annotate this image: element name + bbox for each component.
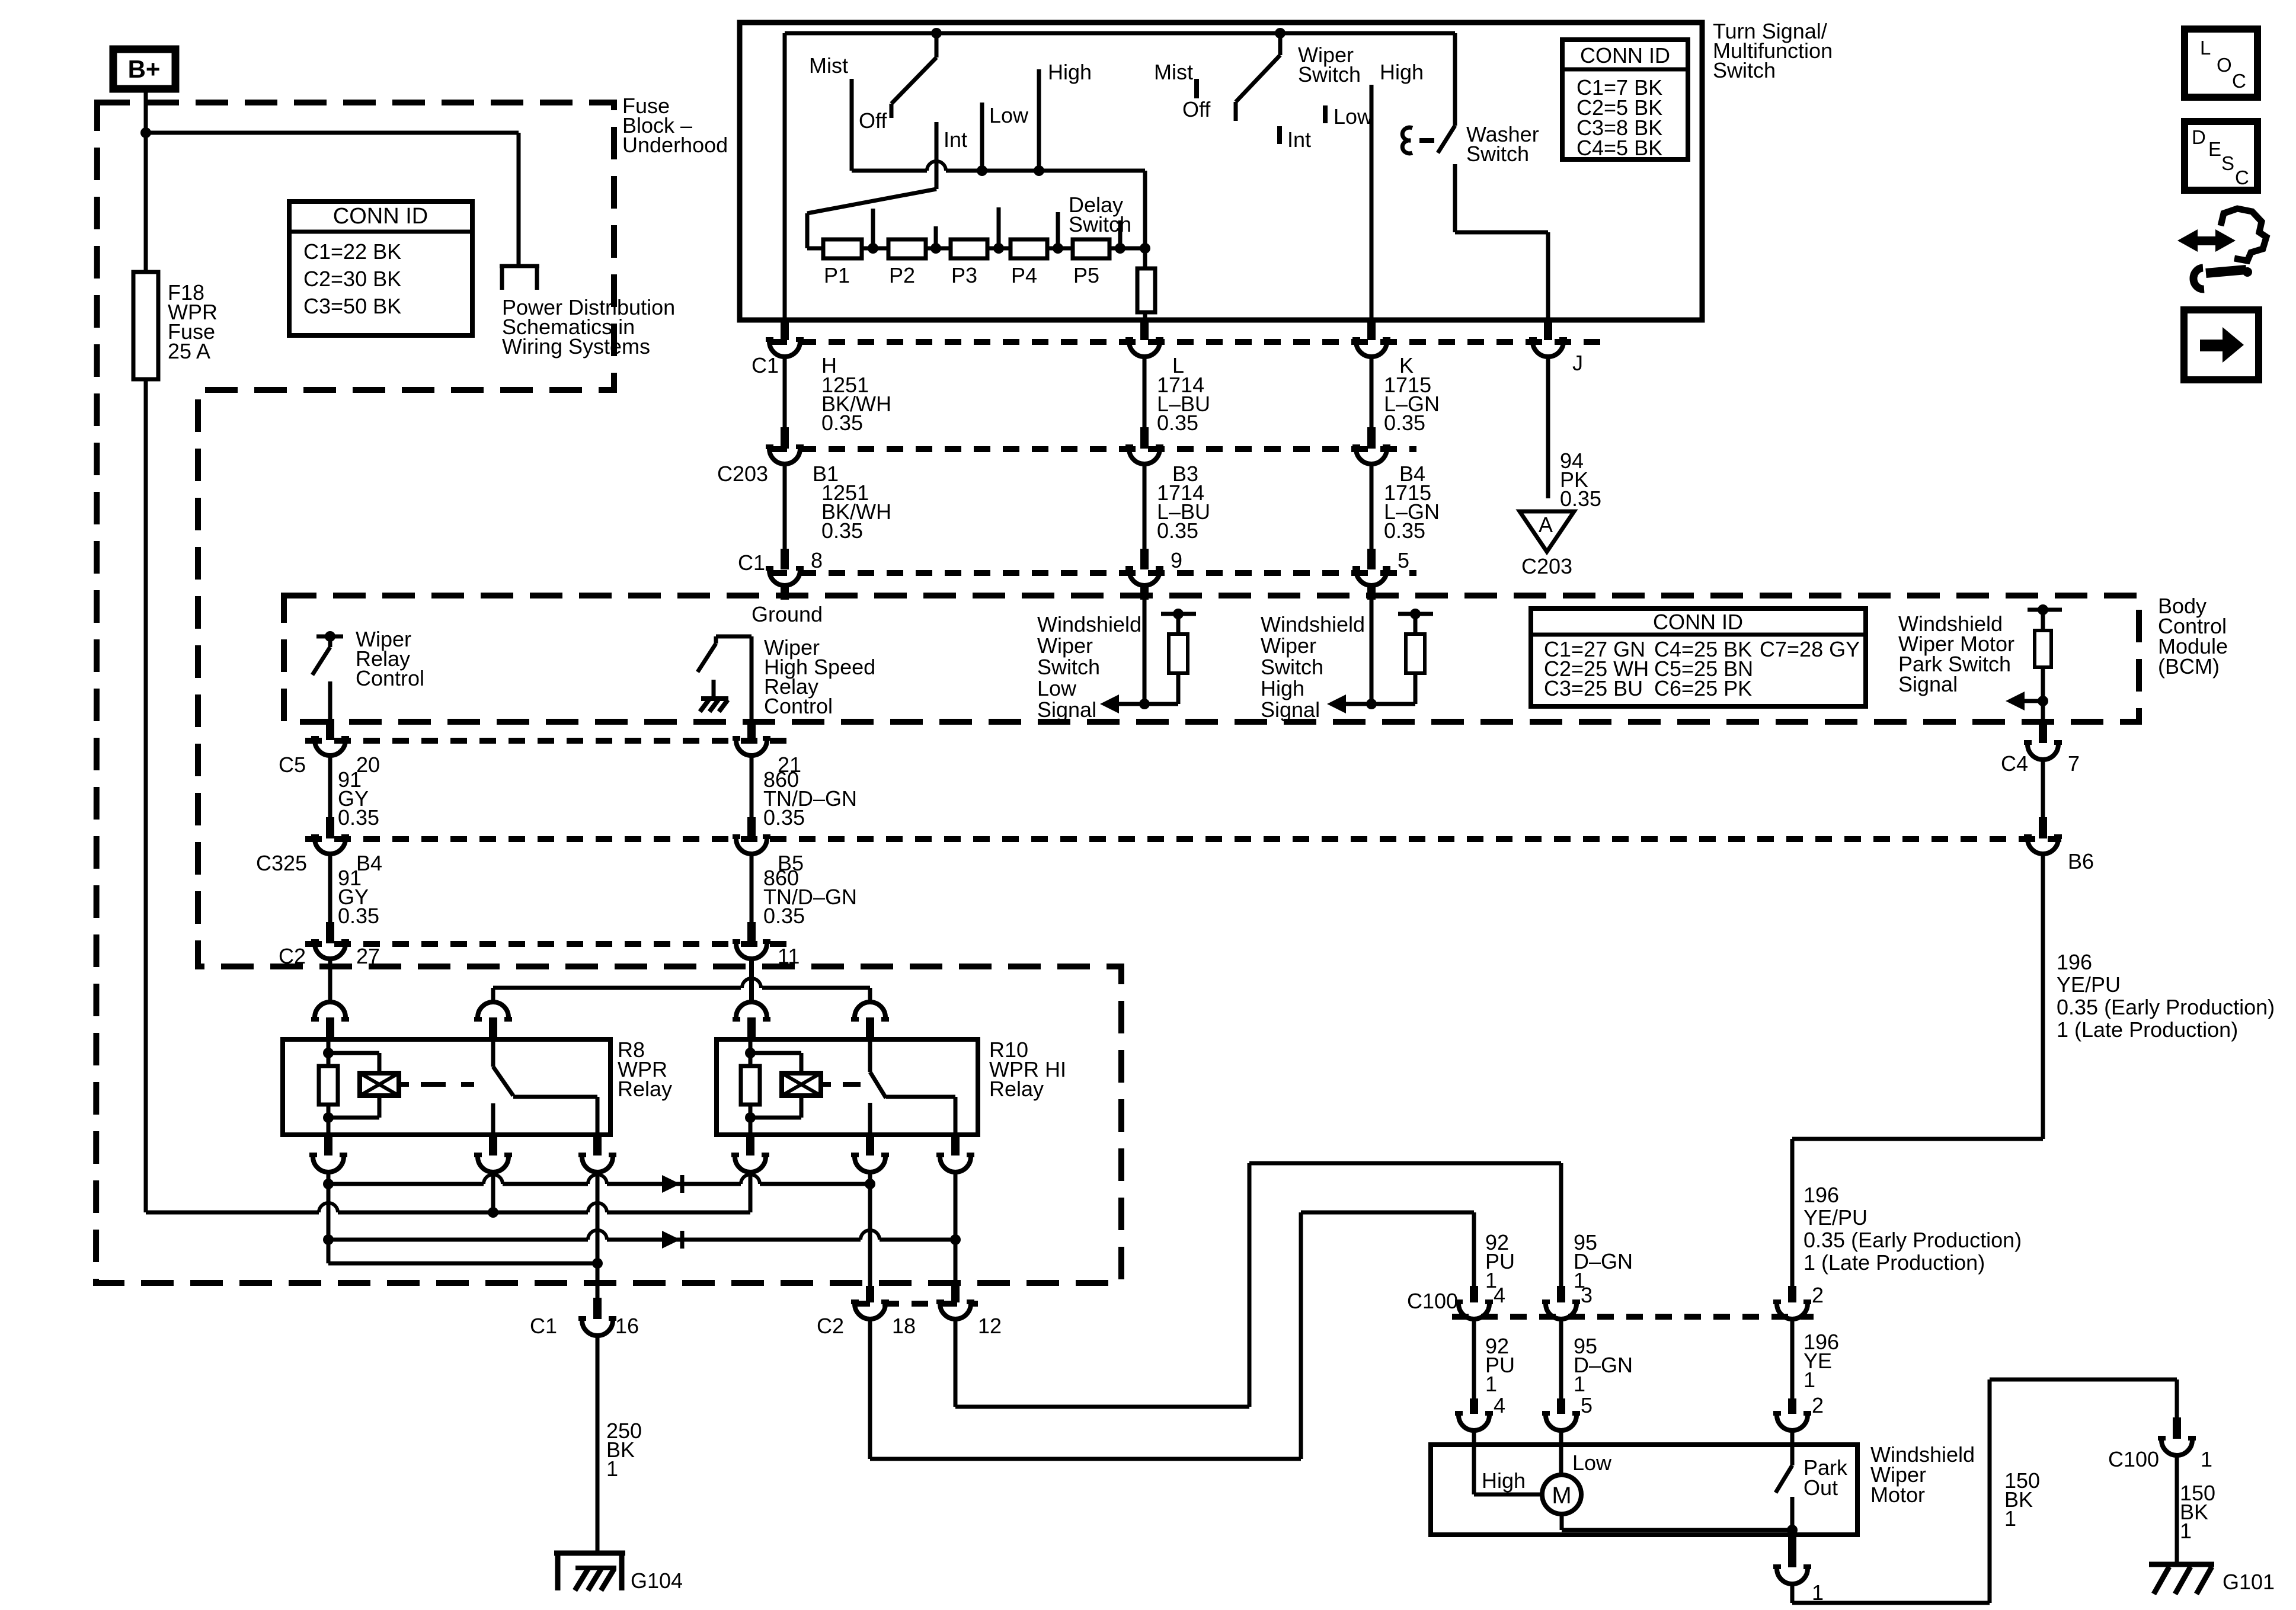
windshield wiper motor box bbox=[1431, 1445, 1857, 1535]
label 12 bbox=[978, 1314, 1002, 1338]
pin stub K into BCM bbox=[1367, 585, 1376, 600]
label C2 bbox=[279, 944, 306, 968]
svg-text:1 (Late Production): 1 (Late Production) bbox=[2057, 1017, 2238, 1042]
R8 linkage bbox=[399, 1082, 474, 1087]
wire high signal input bbox=[1366, 598, 1377, 709]
svg-text:Mist: Mist bbox=[1154, 60, 1193, 84]
connector B5 bbox=[733, 817, 770, 854]
label 18 bbox=[892, 1314, 916, 1338]
wire to power distribution bbox=[146, 133, 519, 266]
label C100 bbox=[1407, 1289, 1458, 1313]
dashed row C5 bbox=[305, 738, 788, 744]
label washer switch bbox=[1466, 122, 1539, 166]
svg-text:Off: Off bbox=[859, 108, 887, 133]
wire row C diode out bbox=[674, 1230, 955, 1240]
connector 21 bbox=[733, 719, 770, 756]
connector H row1 bbox=[766, 320, 804, 357]
label G104 bbox=[631, 1569, 683, 1593]
svg-text:Relay: Relay bbox=[989, 1077, 1044, 1101]
svg-text:Low: Low bbox=[989, 103, 1029, 127]
svg-text:C4: C4 bbox=[2001, 751, 2028, 776]
connector C2-11 bbox=[733, 922, 770, 959]
svg-text:Low: Low bbox=[1037, 676, 1077, 700]
label Int 1 bbox=[944, 127, 967, 152]
icon wrench arrow bbox=[2177, 209, 2266, 289]
svg-text:L: L bbox=[2200, 37, 2211, 59]
ground chassis high speed bbox=[700, 699, 728, 712]
junction dot row C R10 NO bbox=[950, 1234, 961, 1245]
wire 860 upper bbox=[750, 756, 754, 817]
connector motor 5 bbox=[1542, 1398, 1580, 1430]
label P4 bbox=[1011, 263, 1037, 287]
svg-text:M: M bbox=[1552, 1483, 1571, 1509]
wire off common bus bbox=[852, 161, 1145, 248]
R8 NO contact wire bbox=[513, 1097, 597, 1135]
wire 250 BK bbox=[596, 1336, 600, 1554]
label P2 bbox=[889, 263, 915, 287]
svg-text:C7=28 GY: C7=28 GY bbox=[1760, 637, 1860, 661]
svg-text:16: 16 bbox=[615, 1314, 639, 1338]
connector B1 row2 bbox=[766, 427, 804, 464]
svg-text:P1: P1 bbox=[824, 263, 850, 287]
label Low 2 bbox=[1334, 104, 1373, 129]
svg-text:B6: B6 bbox=[2068, 849, 2094, 873]
R10 NC contact wire bbox=[868, 1103, 872, 1135]
svg-text:0.35: 0.35 bbox=[1384, 411, 1425, 435]
connector B6 bbox=[2024, 817, 2062, 854]
svg-text:Signal: Signal bbox=[1898, 672, 1958, 696]
wire R8 common drop bbox=[491, 1172, 495, 1212]
svg-text:Switch: Switch bbox=[1713, 58, 1776, 82]
BCM dashed box bbox=[284, 596, 2139, 722]
connector C325-B4 bbox=[311, 817, 349, 854]
label 150 BK 1 right bbox=[2180, 1481, 2215, 1543]
wire 1251 lower bbox=[783, 465, 787, 549]
label pin 3 upper bbox=[1581, 1283, 1593, 1307]
wire 1715 upper bbox=[1370, 357, 1374, 428]
diode 1 bbox=[662, 1175, 682, 1193]
label windshield wiper motor bbox=[1870, 1442, 1975, 1507]
tap P2-P3 bbox=[930, 226, 941, 254]
label wire 1715 upper bbox=[1384, 373, 1440, 435]
R8 coil bbox=[360, 1073, 399, 1096]
R10 switch blade bbox=[870, 1039, 886, 1098]
diode 2 bbox=[662, 1231, 682, 1249]
svg-text:0.35: 0.35 bbox=[1157, 518, 1198, 543]
label pin 2 upper bbox=[1812, 1283, 1824, 1307]
wire pot wiper bbox=[807, 189, 936, 248]
motor M bbox=[1542, 1475, 1581, 1514]
label wire 92 PU upper bbox=[1485, 1230, 1515, 1292]
R10 linkage bbox=[821, 1082, 861, 1087]
junction dot row A R10 common bbox=[865, 1179, 875, 1189]
label wiper relay control bbox=[356, 627, 424, 690]
svg-text:Wiper: Wiper bbox=[1037, 633, 1093, 658]
R8 coil resistor bbox=[319, 1066, 338, 1105]
svg-text:196: 196 bbox=[2057, 950, 2092, 974]
arrow high signal bbox=[1327, 694, 1371, 713]
CONN ID table switch bbox=[1562, 40, 1688, 160]
label C203 row2 bbox=[717, 462, 768, 486]
label Mist 2 bbox=[1154, 60, 1193, 84]
pin stub L into BCM bbox=[1140, 585, 1149, 600]
label windshield wiper switch low signal bbox=[1037, 612, 1141, 722]
wire Int contact 1 bbox=[935, 122, 939, 189]
svg-text:8: 8 bbox=[811, 548, 823, 572]
wire 196 YE PU bbox=[1792, 854, 2043, 1286]
wire R8 coil bottom drop bbox=[327, 1172, 331, 1263]
svg-text:0.35 (Early Production): 0.35 (Early Production) bbox=[2057, 995, 2275, 1019]
wire motor ground loop bbox=[1792, 1379, 2177, 1603]
svg-text:C: C bbox=[2232, 70, 2246, 92]
label wire 196 YE bbox=[1803, 1330, 1839, 1392]
connector C100-1 bbox=[2158, 1417, 2196, 1455]
label C203 triangle bbox=[1521, 554, 1572, 578]
connector C100-3 bbox=[1542, 1286, 1580, 1319]
R8 NC contact wire bbox=[491, 1103, 495, 1135]
ground G104 bbox=[554, 1551, 625, 1590]
wire 1715 lower bbox=[1370, 465, 1374, 549]
pullup resistor low bbox=[1144, 609, 1196, 704]
svg-text:Signal: Signal bbox=[1261, 697, 1320, 722]
svg-text:4: 4 bbox=[1494, 1393, 1505, 1417]
icon DESC box bbox=[2185, 121, 2257, 190]
wire row A diode out bbox=[674, 1174, 870, 1184]
pin stub H into BCM bbox=[781, 585, 789, 600]
connector C100-2 bbox=[1773, 1286, 1811, 1319]
label 196 YE PU right bbox=[2057, 950, 2275, 1042]
label F18 fuse bbox=[168, 280, 218, 363]
label pin B1 bbox=[813, 462, 839, 486]
label 196 YE PU mid bbox=[1803, 1183, 2022, 1275]
connector C1-16 bbox=[578, 1298, 616, 1336]
svg-text:C1: C1 bbox=[752, 353, 779, 377]
junction dot low bus bbox=[977, 165, 987, 176]
svg-text:High: High bbox=[1048, 60, 1092, 84]
svg-text:High: High bbox=[1482, 1468, 1526, 1493]
label High motor bbox=[1482, 1468, 1526, 1493]
svg-text:(BCM): (BCM) bbox=[2158, 654, 2220, 678]
label windshield wiper switch high signal bbox=[1261, 612, 1365, 722]
label P1 bbox=[824, 263, 850, 287]
svg-text:5: 5 bbox=[1581, 1393, 1593, 1417]
ground G101 bbox=[2149, 1564, 2214, 1594]
junction dot row D NO bbox=[592, 1258, 603, 1269]
label wiper switch bbox=[1298, 43, 1361, 87]
wire R8 NO drop bbox=[596, 1172, 600, 1298]
socket R8 NO bottom bbox=[578, 1135, 616, 1172]
connector motor 1 bbox=[1773, 1535, 1811, 1584]
label wire 91 GY upper bbox=[338, 767, 379, 830]
arrow low signal bbox=[1100, 694, 1144, 713]
svg-text:O: O bbox=[2217, 54, 2232, 76]
label pin 8 bbox=[811, 548, 823, 572]
R8 coil branch bbox=[328, 1053, 379, 1118]
svg-text:Switch: Switch bbox=[1037, 655, 1100, 679]
wire motor high bbox=[1474, 1430, 1541, 1494]
connector L row1 bbox=[1125, 320, 1163, 357]
label P5 bbox=[1073, 263, 1099, 287]
svg-text:C4=5 BK: C4=5 BK bbox=[1576, 136, 1662, 160]
label 27 bbox=[356, 944, 380, 968]
svg-text:P3: P3 bbox=[951, 263, 977, 287]
label C5 bbox=[279, 753, 306, 777]
label B+ bbox=[128, 55, 161, 83]
svg-text:C100: C100 bbox=[1407, 1289, 1458, 1313]
junction dot arm1 bbox=[931, 28, 942, 39]
svg-text:Off: Off bbox=[1182, 97, 1211, 121]
connector pin 8 row3 bbox=[766, 549, 804, 585]
dashed row C325 bbox=[305, 836, 2061, 842]
svg-text:Signal: Signal bbox=[1037, 697, 1096, 722]
label pin H bbox=[821, 353, 837, 377]
label wire 1714 lower bbox=[1157, 481, 1210, 543]
wire C4 to B6 bbox=[2041, 760, 2045, 817]
tick Low 2 bbox=[1323, 105, 1328, 123]
label 11 bbox=[778, 944, 800, 968]
label wire 1714 upper bbox=[1157, 373, 1210, 435]
svg-text:CONN ID: CONN ID bbox=[1653, 610, 1743, 634]
socket R8 switch top bbox=[474, 1002, 512, 1041]
svg-text:C2: C2 bbox=[817, 1314, 844, 1338]
label Off 2 bbox=[1182, 97, 1211, 121]
svg-text:11: 11 bbox=[778, 944, 800, 968]
svg-text:C3=50 BK: C3=50 BK bbox=[303, 294, 401, 318]
wiper switch arm 1 bbox=[891, 33, 936, 118]
CONN ID table fuse block bbox=[289, 201, 472, 335]
svg-text:D: D bbox=[2192, 126, 2206, 148]
connector C100-4 bbox=[1455, 1286, 1493, 1319]
svg-text:25 A: 25 A bbox=[168, 339, 210, 363]
label C4 bbox=[2001, 751, 2028, 776]
label G101 bbox=[2223, 1570, 2275, 1594]
label pin 5 bbox=[1398, 548, 1409, 572]
relay R10 box bbox=[717, 1039, 978, 1135]
wire row D bbox=[328, 1262, 597, 1266]
svg-text:YE/PU: YE/PU bbox=[1803, 1205, 1868, 1230]
svg-text:C2: C2 bbox=[279, 944, 306, 968]
label power distribution bbox=[502, 295, 675, 359]
svg-text:4: 4 bbox=[1494, 1283, 1505, 1307]
wire row A bbox=[328, 1174, 662, 1184]
svg-text:Low: Low bbox=[1572, 1451, 1612, 1475]
wire 94 PK bbox=[1546, 357, 1550, 498]
wire relay common bus bbox=[493, 978, 870, 1003]
svg-text:2: 2 bbox=[1812, 1283, 1824, 1307]
svg-text:Relay: Relay bbox=[618, 1077, 672, 1101]
svg-text:0.35: 0.35 bbox=[763, 805, 805, 830]
connector J row1 bbox=[1529, 320, 1567, 357]
R10 coil branch bbox=[750, 1053, 801, 1118]
resistor P1 bbox=[823, 239, 862, 258]
svg-text:196: 196 bbox=[1803, 1183, 1839, 1207]
svg-text:Ground: Ground bbox=[752, 602, 823, 626]
svg-text:P5: P5 bbox=[1073, 263, 1099, 287]
wire delay resistor row bbox=[807, 247, 1145, 251]
tap P4-P5 bbox=[1053, 212, 1063, 254]
label R10 WPR HI relay bbox=[989, 1038, 1066, 1101]
svg-text:C3=25 BU: C3=25 BU bbox=[1544, 676, 1643, 700]
wiper high speed relay control switch bbox=[698, 636, 752, 722]
svg-text:1: 1 bbox=[1574, 1372, 1585, 1396]
wire 91 GY lower bbox=[328, 854, 332, 922]
R8 switch blade bbox=[493, 1039, 513, 1096]
washer switch curl bbox=[1402, 127, 1412, 153]
R10 NO contact wire bbox=[886, 1097, 955, 1135]
svg-text:C5: C5 bbox=[279, 753, 306, 777]
tap P3-P4 bbox=[993, 207, 1004, 254]
wire motor low bbox=[1559, 1430, 1563, 1474]
svg-text:Switch: Switch bbox=[1069, 212, 1131, 236]
socket R10 coil bottom bbox=[731, 1135, 769, 1172]
label pin K bbox=[1399, 353, 1414, 377]
label B6 bbox=[2068, 849, 2094, 873]
label wire 860 lower bbox=[763, 866, 857, 928]
label C2 motor bbox=[817, 1314, 844, 1338]
label wire 95 DGN lower bbox=[1574, 1334, 1633, 1396]
junction dot row B common bbox=[488, 1207, 498, 1218]
label C1-16 bbox=[530, 1314, 639, 1338]
label pin B4 bbox=[1399, 462, 1425, 486]
label 250 BK 1 bbox=[606, 1419, 642, 1481]
svg-text:C1: C1 bbox=[530, 1314, 557, 1338]
resistor P3 bbox=[951, 239, 987, 258]
svg-text:C203: C203 bbox=[717, 462, 768, 486]
svg-text:High: High bbox=[1380, 60, 1424, 84]
R8 coil wire bbox=[323, 1039, 334, 1135]
connector motor 2 bbox=[1773, 1398, 1811, 1430]
svg-text:0.35: 0.35 bbox=[763, 904, 805, 928]
wire high speed control drop bbox=[749, 959, 754, 1003]
connector B3 row2 bbox=[1125, 427, 1163, 464]
svg-text:G101: G101 bbox=[2223, 1570, 2275, 1594]
svg-text:CONN ID: CONN ID bbox=[333, 204, 428, 229]
tick Int 2 bbox=[1277, 126, 1282, 144]
relay R8 box bbox=[283, 1039, 610, 1135]
icon LOC box bbox=[2185, 29, 2257, 97]
label pin 1 motor bbox=[1812, 1580, 1824, 1605]
svg-text:18: 18 bbox=[892, 1314, 916, 1338]
svg-text:Underhood: Underhood bbox=[622, 133, 728, 157]
svg-text:P2: P2 bbox=[889, 263, 915, 287]
wire 91 GY upper bbox=[328, 756, 332, 817]
label Mist 1 bbox=[809, 53, 848, 78]
svg-text:A: A bbox=[1539, 513, 1553, 537]
wire R10 NO drop bbox=[954, 1172, 958, 1286]
wire motor common bbox=[1562, 1514, 1798, 1535]
svg-text:2: 2 bbox=[1812, 1393, 1824, 1417]
wire row B bbox=[146, 1203, 750, 1212]
junction dot delay output bbox=[1140, 243, 1150, 254]
connector C2-18 bbox=[851, 1286, 889, 1319]
park switch signal resistor bbox=[2028, 604, 2062, 722]
dashed connector row C1 bcm bbox=[770, 570, 1416, 576]
wire 92 PU lower bbox=[1472, 1319, 1476, 1398]
svg-text:Wiper: Wiper bbox=[1261, 633, 1316, 658]
socket R8 coil bottom bbox=[309, 1135, 347, 1172]
svg-text:27: 27 bbox=[356, 944, 380, 968]
svg-text:1: 1 bbox=[606, 1457, 618, 1481]
tap P1-P2 bbox=[868, 209, 878, 254]
label turn signal multifunction switch bbox=[1713, 19, 1833, 82]
label fuse block underhood bbox=[622, 94, 728, 157]
wire C2-27 to relay bbox=[328, 959, 332, 1003]
wire Low contact 1 bbox=[980, 103, 984, 171]
wire 1714 upper bbox=[1143, 357, 1147, 428]
label Off 1 bbox=[859, 108, 887, 133]
connector C2-12 bbox=[936, 1286, 974, 1319]
connector motor 4 bbox=[1455, 1398, 1493, 1430]
svg-text:Out: Out bbox=[1803, 1475, 1838, 1500]
connector K row1 bbox=[1352, 320, 1390, 357]
connector pin 9 row3 bbox=[1125, 549, 1163, 585]
CONN ID table BCM bbox=[1531, 609, 1866, 706]
dashed connector row C1 top bbox=[770, 339, 1600, 345]
label pin B3 bbox=[1172, 462, 1198, 486]
wire low signal input bbox=[1139, 598, 1150, 709]
wire 860 lower bbox=[750, 854, 754, 922]
svg-text:High: High bbox=[1261, 676, 1304, 700]
svg-text:J: J bbox=[1572, 351, 1583, 375]
wire 18 to C100-4 bbox=[870, 1212, 1474, 1459]
label pin 4 upper bbox=[1494, 1283, 1505, 1307]
svg-text:G104: G104 bbox=[631, 1569, 683, 1593]
washer switch blade bbox=[1438, 33, 1455, 153]
svg-text:C100: C100 bbox=[2108, 1447, 2159, 1471]
arrow park switch signal bbox=[2006, 692, 2043, 710]
svg-text:1 (Late Production): 1 (Late Production) bbox=[1803, 1250, 1985, 1275]
wiper relay control switch bbox=[312, 631, 343, 722]
label R8 WPR relay bbox=[618, 1038, 672, 1101]
wiper switch arm 2 bbox=[1236, 33, 1280, 121]
label wire 92 PU lower bbox=[1485, 1334, 1515, 1396]
svg-text:0.35: 0.35 bbox=[1157, 411, 1198, 435]
label BCM bbox=[2158, 594, 2228, 678]
label wiper high speed relay control bbox=[764, 635, 875, 718]
park switch blade bbox=[1776, 1430, 1792, 1530]
svg-text:Switch: Switch bbox=[1298, 62, 1361, 87]
label wire 1715 lower bbox=[1384, 481, 1440, 543]
dashed row C100 bbox=[1452, 1314, 1814, 1320]
dashed row C2 motor bbox=[853, 1301, 978, 1307]
label wire 91 GY lower bbox=[338, 866, 379, 928]
connector C4-7 bbox=[2024, 722, 2062, 760]
socket R8 coil top bbox=[311, 1002, 349, 1041]
label pin 5 lower bbox=[1581, 1393, 1593, 1417]
label 150 BK 1 left bbox=[2004, 1468, 2040, 1531]
wire High contact 2 bbox=[1370, 85, 1374, 320]
off-page bracket Power Distribution bbox=[500, 264, 539, 290]
label ground pin bbox=[752, 602, 823, 626]
resistor delay output bbox=[1137, 248, 1155, 320]
dashed connector row C203 bbox=[770, 446, 1416, 452]
svg-text:7: 7 bbox=[2068, 751, 2080, 776]
socket R10 coil top bbox=[733, 1002, 770, 1041]
label 20 bbox=[356, 753, 380, 777]
wire R10 coil bottom drop bbox=[749, 1172, 753, 1212]
label C1 row1 bbox=[752, 353, 779, 377]
svg-text:0.35: 0.35 bbox=[821, 518, 863, 543]
socket R8 common bottom bbox=[474, 1135, 512, 1172]
junction dot high bus bbox=[1034, 165, 1044, 176]
svg-text:E: E bbox=[2208, 138, 2221, 160]
connector pin 5 row3 bbox=[1352, 549, 1390, 585]
wire 12 to C100-3 bbox=[955, 1163, 1561, 1407]
wire B+ feed vertical bbox=[144, 91, 148, 1212]
R10 coil bbox=[782, 1073, 821, 1096]
junction dot row C coil bbox=[323, 1234, 334, 1245]
label pin 9 bbox=[1171, 548, 1182, 572]
